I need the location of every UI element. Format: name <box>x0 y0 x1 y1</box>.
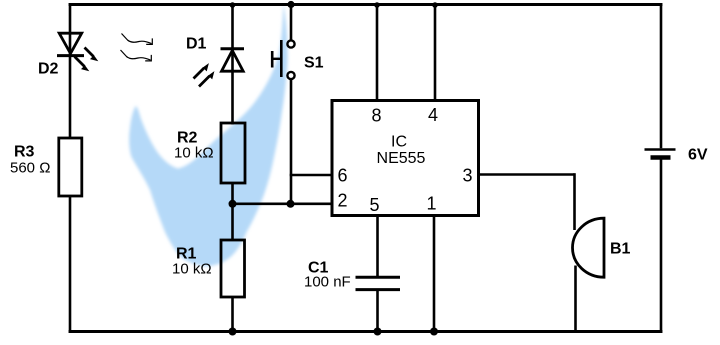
svg-text:2: 2 <box>338 191 348 211</box>
wire rail to photodiode D1 <box>231 3 234 72</box>
wire pin 3 down to buzzer <box>573 173 576 230</box>
wire resistor R3 to bottom rail <box>69 195 72 334</box>
wire pin6 horizontal <box>290 174 333 177</box>
svg-text:4: 4 <box>428 105 438 125</box>
svg-text:D2: D2 <box>38 61 59 78</box>
junction dot S1/pin2 <box>287 200 295 208</box>
wire rail to pin 8 <box>376 3 379 102</box>
wire R2 to R1 <box>231 182 234 241</box>
svg-text:S1: S1 <box>304 55 324 72</box>
junction dot C1 bottom <box>374 328 382 336</box>
resistor R3 <box>59 138 82 196</box>
svg-text:560 Ω: 560 Ω <box>10 160 50 177</box>
svg-text:D1: D1 <box>186 36 207 53</box>
switch S1 <box>272 40 294 79</box>
node junction R1/R2 <box>229 200 237 208</box>
wire rail to switch S1 <box>290 3 293 41</box>
junction dot D1 top <box>230 2 236 8</box>
buzzer B1 <box>572 218 604 277</box>
wire buzzer to bottom rail <box>574 266 577 334</box>
wire pin 3 horizontal <box>477 173 575 176</box>
junction dot pin8 top <box>374 2 380 8</box>
wire left branch top (rail to LED D2) <box>69 3 72 56</box>
light waves from D2 to D1 <box>121 34 153 61</box>
svg-text:IC: IC <box>391 134 407 151</box>
svg-text:6: 6 <box>338 166 348 186</box>
wire R1 to bottom rail <box>231 296 234 333</box>
junction dot pin1 bottom <box>430 328 438 336</box>
wire LED D2 to resistor R3 <box>69 55 72 140</box>
wire S1 to pin2 node <box>290 79 293 204</box>
svg-text:6V: 6V <box>688 147 708 164</box>
wire D1 to resistor R2 <box>231 70 234 125</box>
wire rail to battery <box>660 3 663 148</box>
svg-text:3: 3 <box>463 166 473 186</box>
svg-text:R3: R3 <box>14 144 35 161</box>
wire pin 1 to bottom rail <box>433 214 436 333</box>
svg-text:NE555: NE555 <box>377 150 426 167</box>
svg-text:5: 5 <box>370 195 380 215</box>
svg-text:B1: B1 <box>610 241 631 258</box>
wire C1 to bottom rail <box>376 291 379 333</box>
resistor R1 <box>221 240 245 297</box>
junction dot pin4 top <box>432 2 438 8</box>
junction dot R1 bottom <box>229 328 237 336</box>
battery BT1 <box>645 150 676 158</box>
wire pin 5 to capacitor C1 <box>376 214 379 276</box>
photodiode D1 <box>194 49 245 87</box>
svg-text:100 nF: 100 nF <box>304 274 351 291</box>
wire top supply rail <box>69 3 663 6</box>
svg-text:10 kΩ: 10 kΩ <box>174 145 214 162</box>
capacitor C1 <box>356 277 401 289</box>
LED D2 <box>57 33 98 71</box>
wire pin2 node horizontal <box>231 203 333 206</box>
resistor R2 <box>221 123 245 183</box>
svg-text:8: 8 <box>372 106 382 126</box>
svg-text:10 kΩ: 10 kΩ <box>172 261 212 278</box>
junction dot S1 top <box>287 1 294 8</box>
svg-text:1: 1 <box>427 194 437 214</box>
light beam graphic <box>129 4 287 266</box>
wire battery to bottom rail <box>660 159 663 333</box>
op IC NE555 box U1 <box>332 101 479 216</box>
wire bottom ground rail <box>69 330 663 333</box>
wire rail to pin 4 <box>434 3 437 102</box>
